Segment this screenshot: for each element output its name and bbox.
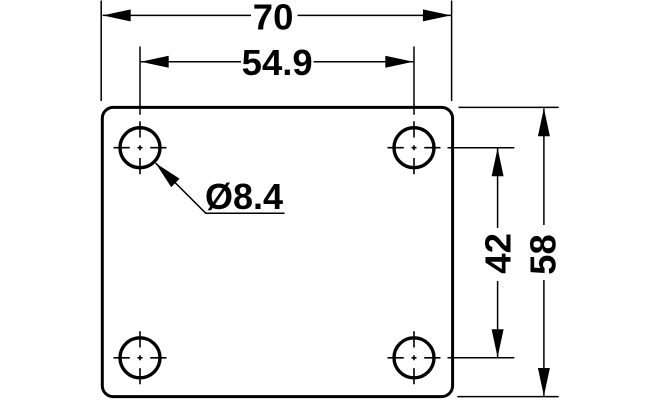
svg-text:58: 58 [522, 234, 563, 275]
svg-text:Ø8.4: Ø8.4 [205, 176, 283, 217]
svg-text:54.9: 54.9 [242, 42, 313, 83]
svg-text:42: 42 [478, 233, 519, 274]
svg-text:70: 70 [253, 0, 294, 38]
